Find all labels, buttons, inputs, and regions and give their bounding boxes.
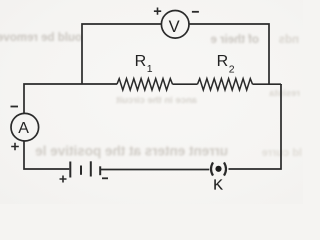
svg-text:R: R <box>217 53 229 70</box>
svg-text:ance in the circuit: ance in the circuit <box>115 95 197 106</box>
svg-text:1: 1 <box>147 63 153 75</box>
svg-text:resista: resista <box>269 88 300 99</box>
svg-text:nds: nds <box>279 34 299 46</box>
svg-text:2: 2 <box>229 63 235 75</box>
svg-text:R: R <box>135 53 147 70</box>
svg-text:ould be removed t: ould be removed t <box>0 32 82 44</box>
svg-text:V: V <box>169 18 180 36</box>
svg-text:of their e: of their e <box>210 34 259 46</box>
svg-text:urrent enters at the positive: urrent enters at the positive le <box>35 144 228 159</box>
svg-text:A: A <box>18 120 29 137</box>
svg-text:K: K <box>213 178 223 194</box>
